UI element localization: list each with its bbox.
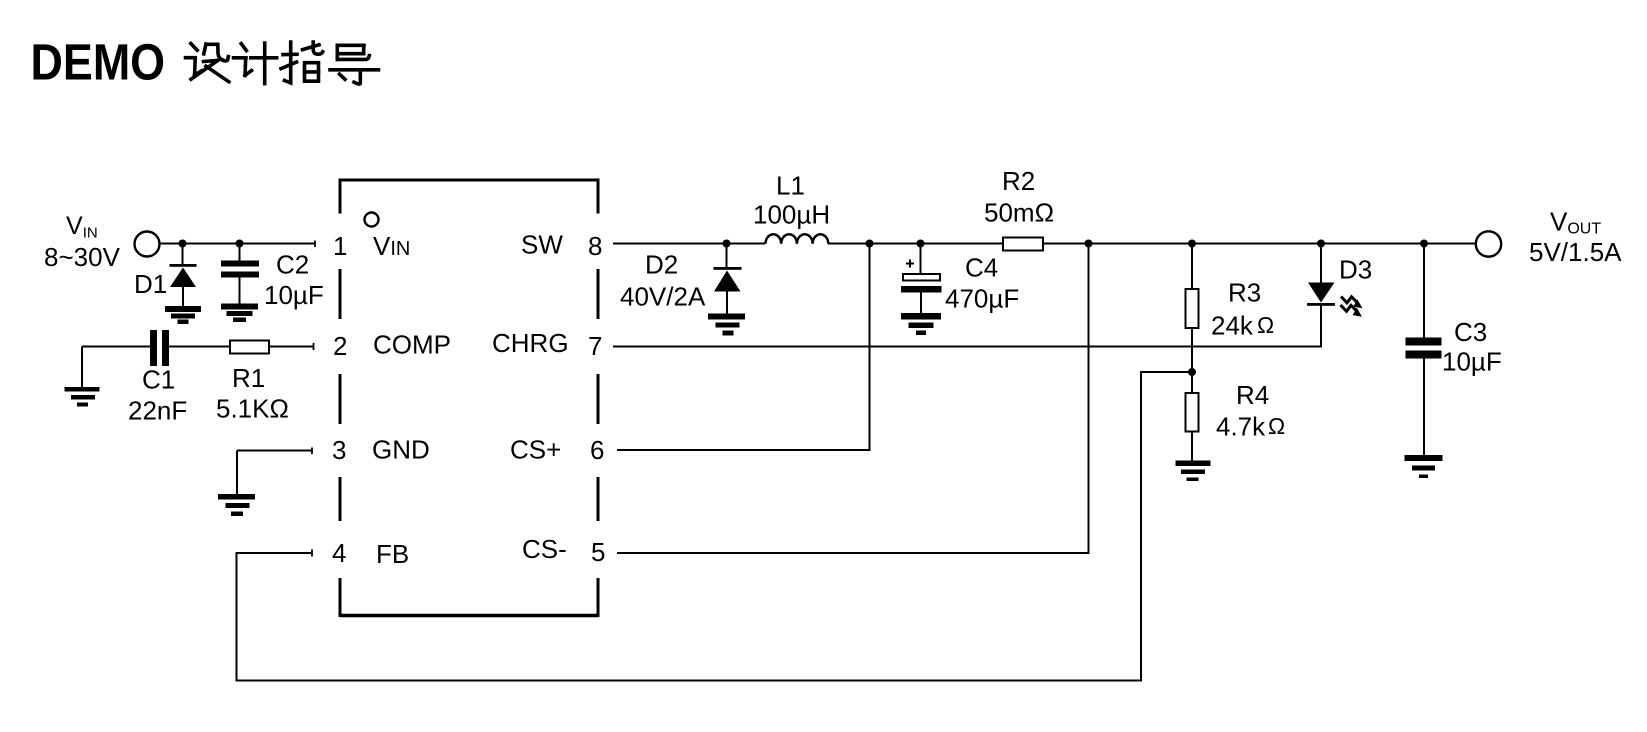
svg-text:CS+: CS+ bbox=[510, 435, 561, 465]
svg-text:4: 4 bbox=[332, 538, 346, 568]
wire C1 to R1 bbox=[169, 346, 230, 348]
ground D1 bbox=[165, 306, 201, 324]
node junction R3 top bbox=[1188, 240, 1196, 248]
svg-text:5.1KΩ: 5.1KΩ bbox=[216, 394, 289, 424]
svg-text:FB: FB bbox=[376, 539, 409, 569]
ground C4 bbox=[901, 313, 941, 335]
node junction C2 bbox=[236, 240, 244, 248]
node junction CS- bbox=[1085, 240, 1093, 248]
resistor R3 bbox=[1186, 244, 1199, 373]
title chinese 指 bbox=[281, 42, 323, 83]
svg-text:6: 6 bbox=[590, 435, 604, 465]
capacitor C4 bbox=[901, 244, 942, 314]
svg-text:R4: R4 bbox=[1236, 380, 1269, 410]
wire R2 to VOUT bbox=[1043, 243, 1476, 245]
svg-text:CHRG: CHRG bbox=[492, 328, 569, 358]
diode D1 bbox=[170, 244, 197, 307]
svg-text:22nF: 22nF bbox=[128, 396, 187, 426]
svg-text:5V/1.5A: 5V/1.5A bbox=[1529, 237, 1622, 267]
IC U1 box top border bbox=[340, 179, 598, 182]
svg-text:DEMO: DEMO bbox=[31, 35, 166, 91]
svg-text:L1: L1 bbox=[776, 171, 805, 201]
svg-text:1: 1 bbox=[333, 231, 347, 261]
capacitor C1 bbox=[150, 330, 169, 366]
svg-text:8~30V: 8~30V bbox=[44, 242, 121, 272]
ground C2 bbox=[221, 304, 258, 323]
svg-text:Ω: Ω bbox=[1257, 312, 1274, 338]
svg-text:SW: SW bbox=[521, 230, 563, 260]
svg-text:C2: C2 bbox=[276, 250, 309, 280]
node junction D1 bbox=[179, 240, 187, 248]
pin 1 indicator circle bbox=[365, 213, 379, 227]
svg-text:R1: R1 bbox=[232, 363, 265, 393]
title DEMO bbox=[31, 35, 166, 91]
title chinese 导 bbox=[330, 45, 379, 84]
title chinese 计 bbox=[234, 43, 277, 84]
svg-text:R3: R3 bbox=[1228, 278, 1261, 308]
ground COMP left bbox=[65, 387, 100, 407]
wire CHRG pin7 bbox=[613, 305, 1321, 347]
capacitor C2 bbox=[221, 244, 259, 304]
wire pin3 to ground bbox=[237, 451, 312, 495]
svg-text:GND: GND bbox=[372, 435, 430, 465]
wire CS+ vertical bbox=[617, 244, 870, 451]
inductor L1 bbox=[766, 234, 829, 244]
svg-text:5: 5 bbox=[591, 537, 605, 567]
wire VIN to pin1 bbox=[160, 243, 316, 245]
resistor R1 bbox=[230, 341, 269, 354]
svg-text:10µF: 10µF bbox=[1442, 347, 1502, 377]
ground D2 bbox=[708, 314, 745, 336]
svg-text:24k: 24k bbox=[1211, 311, 1254, 341]
IC U1 box bottom border bbox=[340, 614, 598, 617]
svg-text:40V/2A: 40V/2A bbox=[620, 282, 706, 312]
node junction C4 bbox=[917, 240, 925, 248]
svg-text:3: 3 bbox=[332, 435, 346, 465]
node junction D3 bbox=[1317, 240, 1325, 248]
ground R4 bbox=[1176, 461, 1211, 482]
diode D2 bbox=[714, 244, 742, 314]
wire CS- vertical bbox=[617, 244, 1089, 554]
node junction R3 R4 bbox=[1188, 368, 1196, 376]
svg-text:10µF: 10µF bbox=[264, 280, 324, 310]
LED D3 bbox=[1307, 244, 1335, 306]
title chinese 设 bbox=[186, 44, 229, 82]
svg-text:C3: C3 bbox=[1454, 317, 1487, 347]
svg-text:C4: C4 bbox=[965, 253, 998, 283]
capacitor C3 bbox=[1406, 244, 1442, 456]
svg-text:Ω: Ω bbox=[1268, 413, 1285, 439]
ground C3 bbox=[1405, 455, 1443, 478]
LED D3 light arrows bbox=[1341, 297, 1357, 312]
svg-text:D3: D3 bbox=[1339, 255, 1372, 285]
resistor R2 bbox=[1003, 238, 1043, 251]
svg-text:4.7k: 4.7k bbox=[1216, 412, 1266, 442]
IC U1 box right border segments bbox=[597, 179, 600, 618]
svg-text:100µH: 100µH bbox=[753, 200, 830, 230]
wire R1 to pin2 bbox=[269, 346, 314, 348]
wire end tick pin2 bbox=[313, 343, 315, 350]
VOUT terminal circle bbox=[1476, 231, 1501, 256]
svg-text:2: 2 bbox=[333, 331, 347, 361]
wire end tick pin1 bbox=[314, 241, 316, 248]
svg-text:D2: D2 bbox=[645, 250, 678, 280]
wire end tick pin4 bbox=[311, 550, 313, 557]
svg-text:7: 7 bbox=[588, 331, 602, 361]
IC U1 box left border segments bbox=[339, 179, 342, 618]
ground pin3 bbox=[218, 494, 255, 516]
svg-text:C1: C1 bbox=[142, 365, 175, 395]
wire SW pin8 to L1 bbox=[613, 243, 765, 245]
svg-text:D1: D1 bbox=[134, 269, 167, 299]
wire end tick pin3 bbox=[311, 448, 313, 455]
svg-text:8: 8 bbox=[588, 231, 602, 261]
svg-text:50mΩ: 50mΩ bbox=[984, 198, 1054, 228]
resistor R4 bbox=[1186, 372, 1199, 461]
VIN terminal circle bbox=[135, 232, 160, 257]
svg-text:COMP: COMP bbox=[373, 330, 451, 360]
svg-text:470µF: 470µF bbox=[945, 284, 1019, 314]
node junction CS+ bbox=[866, 240, 874, 248]
node junction D2 bbox=[723, 240, 731, 248]
wire COMP ground to C1 bbox=[82, 347, 150, 388]
wire L1 to R2 bbox=[828, 243, 1003, 245]
svg-text:R2: R2 bbox=[1002, 166, 1035, 196]
wire FB pin4 feedback loop bbox=[237, 372, 1193, 681]
node junction C3 bbox=[1420, 240, 1428, 248]
svg-text:CS-: CS- bbox=[522, 534, 567, 564]
